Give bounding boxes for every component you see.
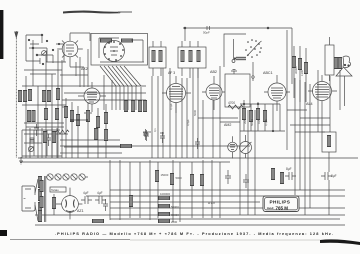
- mains plug: [22, 186, 35, 211]
- value labels middle: [153, 66, 304, 132]
- capacitor C5: [95, 191, 106, 204]
- resistor R21: [158, 204, 179, 209]
- resistor R20: [158, 192, 170, 200]
- capacitor C8: [285, 167, 296, 180]
- capacitor C9: [321, 172, 337, 180]
- potentiometer P2: [240, 135, 252, 158]
- capacitor C13: [143, 129, 148, 140]
- IF transformer MF1: [149, 41, 166, 76]
- choke L4: [92, 219, 104, 223]
- resistor R4b: [32, 110, 36, 122]
- mid wires right: [287, 30, 345, 215]
- svg-text:5000: 5000: [193, 110, 197, 116]
- resistor R34: [170, 173, 182, 185]
- svg-text:30000: 30000: [171, 213, 179, 217]
- capacitor C3: [46, 134, 51, 146]
- resistor R8: [138, 100, 142, 112]
- resistor R32: [263, 110, 267, 122]
- capacitor C11: [160, 132, 165, 143]
- bus lines mid: [18, 146, 358, 162]
- svg-text:50pF: 50pF: [203, 31, 210, 35]
- resistor R16: [76, 114, 80, 126]
- bottom bus wires: [35, 107, 345, 225]
- top long wire: [183, 26, 292, 84]
- middle vertical wires: [143, 66, 240, 158]
- svg-text:2MΩ: 2MΩ: [243, 118, 247, 124]
- svg-text:0,1μF: 0,1μF: [264, 119, 268, 126]
- resistor R30: [249, 110, 253, 122]
- svg-text:AB2: AB2: [210, 70, 217, 74]
- resistor R41: [129, 195, 133, 207]
- svg-text:0,1: 0,1: [153, 128, 157, 132]
- resistor R7: [131, 100, 135, 112]
- resistor R14: [64, 106, 68, 118]
- coil L4: [42, 90, 46, 102]
- bottom scan streak: [10, 239, 130, 241]
- coil L8: [52, 131, 56, 143]
- resistor R23: [158, 219, 178, 224]
- scan artifact black bar left edge: [0, 10, 3, 59]
- svg-text:ABC1: ABC1: [263, 71, 273, 75]
- right coil R12: [298, 46, 302, 102]
- power transformer T1: [35, 176, 46, 222]
- svg-text:15000: 15000: [161, 173, 169, 177]
- coil L5: [47, 90, 51, 102]
- speaker transformer coil: [334, 57, 338, 69]
- potentiometer P1: [28, 146, 33, 151]
- resistor R9: [143, 100, 147, 112]
- trimmer capacitor C1: [42, 51, 48, 56]
- tube AB2: [202, 76, 225, 110]
- svg-text:0,5μF: 0,5μF: [186, 119, 190, 126]
- oscillator section box: [91, 34, 148, 66]
- svg-text:.PHILIPS RADIO — Modello «76: .PHILIPS RADIO — Modello «768 M» + «786 …: [55, 231, 333, 236]
- coil L9: [100, 39, 112, 43]
- capacitor C2: [34, 124, 39, 136]
- resistor R33: [155, 170, 169, 182]
- wires midband left: [60, 98, 122, 158]
- capacitor C4: [81, 191, 92, 204]
- svg-text:0,1μF: 0,1μF: [169, 103, 173, 110]
- coil L1: [18, 90, 22, 102]
- svg-text:AM2: AM2: [224, 123, 231, 127]
- svg-text:5000: 5000: [176, 176, 183, 180]
- svg-text:w.a.b: w.a.b: [208, 201, 215, 205]
- antenna A1: [15, 31, 18, 158]
- resistor R29: [242, 108, 246, 120]
- svg-text:AF 3: AF 3: [168, 71, 175, 75]
- tube AM2: [228, 136, 238, 158]
- capacitor C12: [195, 138, 200, 149]
- resistor R4: [27, 110, 31, 122]
- right coil R13: [304, 48, 308, 102]
- svg-text:4μF: 4μF: [97, 191, 103, 195]
- svg-text:50000: 50000: [250, 118, 254, 126]
- svg-text:mod: mod: [267, 206, 274, 210]
- wires oscillator: [62, 38, 146, 110]
- small label box: [50, 187, 66, 192]
- resistor R39: [120, 144, 132, 148]
- resistor R10 zigzag: [228, 101, 243, 109]
- resistor R17: [86, 110, 90, 122]
- resistor R27: [280, 172, 284, 184]
- svg-text:2000: 2000: [171, 220, 178, 224]
- PHILIPS model label: [263, 196, 299, 212]
- coil L7: [43, 131, 47, 143]
- coil L3: [28, 89, 32, 101]
- resistor R18: [96, 116, 100, 128]
- svg-text:8μF: 8μF: [331, 174, 337, 178]
- tuning gang box: [224, 34, 246, 67]
- svg-text:1MΩ: 1MΩ: [257, 118, 261, 124]
- resistor R24: [190, 174, 194, 186]
- capacitor C6: [225, 170, 231, 184]
- resistor R36 zigzag: [56, 130, 69, 134]
- resistor R15: [70, 110, 74, 122]
- resistor R28: [30, 138, 34, 143]
- svg-text:AZ1: AZ1: [77, 209, 84, 213]
- svg-text:1300: 1300: [300, 70, 304, 76]
- coil L6: [56, 88, 60, 100]
- field coil box: [322, 132, 336, 152]
- resistor R19: [104, 112, 108, 124]
- tube ABC1: [264, 75, 290, 111]
- svg-text:AL4: AL4: [306, 102, 313, 106]
- resistor R38: [104, 129, 108, 141]
- coil L2: [23, 90, 27, 102]
- resistor R26: [271, 168, 275, 180]
- coil L10: [121, 39, 133, 43]
- tone control network: [22, 128, 62, 158]
- svg-text:4700: 4700: [228, 101, 235, 105]
- svg-text:50000: 50000: [171, 205, 179, 209]
- resistor R37: [94, 128, 98, 140]
- tube AF3: [162, 76, 191, 113]
- tube AK2 lower: [78, 82, 106, 112]
- scan smudge top: [63, 11, 121, 14]
- wire input network: [24, 34, 64, 86]
- tube AZ1: [54, 188, 83, 220]
- loudspeaker LS1: [336, 56, 352, 76]
- capacitor C7: [243, 174, 249, 188]
- svg-text:100000: 100000: [160, 192, 170, 196]
- wire verticals left block: [22, 50, 68, 158]
- tube AK2: [57, 33, 83, 67]
- right coil R11: [292, 46, 296, 98]
- capacitor C10: [144, 130, 149, 141]
- IF transformer MF2: [178, 41, 206, 78]
- wires AVC: [240, 100, 285, 132]
- resistor R25: [200, 174, 204, 186]
- svg-text:AK2: AK2: [81, 67, 88, 71]
- tube AL4: [308, 75, 337, 132]
- resistor R5: [44, 108, 48, 120]
- resistor R35: [52, 194, 56, 215]
- svg-text:8μF: 8μF: [286, 167, 292, 171]
- svg-text:Telaio: Telaio: [51, 188, 59, 192]
- svg-text:PHILIPS: PHILIPS: [270, 200, 291, 205]
- svg-text:~: ~: [23, 196, 26, 201]
- ground GND1: [19, 157, 23, 164]
- resistor R31: [256, 108, 260, 120]
- svg-text:765 M: 765 M: [276, 205, 289, 210]
- tube AK2 octode section: [104, 41, 125, 62]
- capacitor C14: [103, 199, 108, 211]
- big coupling box: [225, 70, 250, 108]
- switch contact cluster S1: [245, 39, 262, 81]
- resistor R22: [158, 212, 179, 217]
- dial lamps row: [46, 174, 88, 180]
- wires around AK2: [46, 33, 90, 87]
- output box: [325, 37, 334, 81]
- resistor R5b: [55, 108, 59, 120]
- resistor R6: [124, 100, 128, 112]
- svg-text:4μF: 4μF: [83, 191, 89, 195]
- svg-text:30000: 30000: [294, 66, 298, 74]
